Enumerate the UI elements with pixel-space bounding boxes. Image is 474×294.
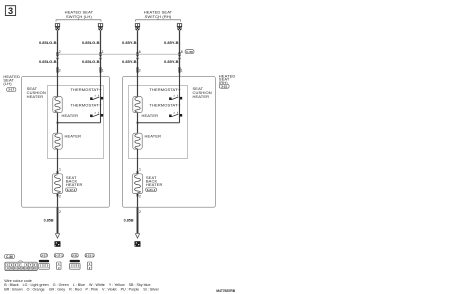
svg-text:0.85Y-B: 0.85Y-B (164, 40, 179, 45)
svg-text:THERMOSTAT: THERMOSTAT (70, 102, 99, 107)
svg-text:BR : Brown O : Orange GR: BR : Brown O : Orange GR : Grey R : Red … (4, 287, 159, 291)
heated seat (RH) unit box (122, 76, 215, 207)
svg-text:3-21-1: 3-21-1 (86, 254, 95, 258)
wire colour code legend (4, 279, 159, 291)
C-56 female terminal arrow on wire 2 (99, 57, 102, 59)
svg-text:2: 2 (59, 69, 61, 73)
C-56 female terminal arrow on wire 3 (136, 57, 139, 59)
seat cushion heater inner box (LH) (48, 86, 104, 159)
thermostat 2 leader line (RH) (176, 104, 179, 106)
svg-text:0.85B: 0.85B (44, 218, 54, 222)
wire (LH) pin-2 down to cushion heater element (57, 76, 59, 97)
wire from heated seat switch (RH) terminal A to heated seat unit (137, 30, 139, 76)
wire (RH) from heater 2 to seat back heater (137, 149, 139, 174)
connector C-56 male pin tick on wire 2 (99, 52, 101, 56)
heated seat unit entry pin 1 on wire 2 (100, 67, 102, 72)
seat back heater connector ref 3-21-1 (RH) (146, 188, 157, 192)
seat back heater caption (RH) (146, 175, 163, 187)
connector C-56 male pin tick on wire 4 (178, 52, 180, 56)
heated seat switch (LH) terminal A (55, 23, 60, 30)
heated seat (LH) ref 3-17 (7, 88, 16, 92)
heated seat (LH) unit box (21, 76, 109, 207)
svg-text:(LH): (LH) (3, 81, 12, 86)
seat cushion heater element 1 (RH) (133, 97, 142, 113)
svg-text:HEATER: HEATER (146, 182, 163, 187)
connector C-56 male pin tick on wire 1 (56, 52, 58, 56)
connector C-56 face label (4, 255, 15, 259)
heated seat switch (LH) label (65, 9, 94, 19)
junction dot (RH) (136, 122, 138, 124)
svg-text:3-21: 3-21 (221, 85, 227, 89)
svg-text:HEATER: HEATER (142, 113, 159, 118)
seat back heater connector ref 3-17-1 (LH) (66, 188, 77, 192)
wire (LH) from heater 2 to seat back heater (57, 149, 59, 174)
heated seat switch (RH) terminal A (135, 23, 140, 30)
svg-text:SWITCH (LH): SWITCH (LH) (66, 14, 93, 19)
thermostat 2 switch symbol (LH) (90, 112, 103, 117)
seat back heater pin 1 (LH) (57, 171, 59, 174)
svg-text:3-17: 3-17 (41, 254, 47, 258)
C-56 female terminal arrow on wire 4 (178, 57, 181, 59)
bracket under heated seat switch (LH) label (56, 18, 101, 22)
seat back heater pin 2 (RH) (137, 194, 139, 197)
seat cushion heater element 2 (LH) (53, 133, 62, 149)
heated seat unit entry pin 2 on wire 1 (57, 67, 59, 72)
ground wire (RH) (137, 207, 139, 233)
svg-text:1: 1 (181, 69, 183, 73)
svg-text:THERMOSTAT: THERMOSTAT (149, 102, 178, 107)
heated seat unit entry pin 1 on wire 4 (179, 67, 181, 72)
connector C-56 label (185, 50, 194, 54)
svg-text:2: 2 (139, 210, 141, 214)
connector 3-21-1 face (85, 254, 94, 258)
wire from heated seat switch (LH) terminal B to heated seat unit (100, 30, 102, 76)
thermostat 2 switch symbol (RH) (169, 112, 182, 117)
connecting wire at bottom of cushion heater (RH) (138, 122, 180, 124)
svg-text:HEATER: HEATER (66, 182, 83, 187)
wire (RH) pin-1 thermostat branch (179, 76, 181, 123)
wire (RH) seat back heater to unit box edge (137, 197, 139, 208)
thermostat 1 switch symbol (RH) (169, 95, 182, 100)
ground wire (LH) (57, 207, 59, 233)
thermostat 1 leader line (RH) (176, 89, 179, 91)
svg-text:0.85Y-B: 0.85Y-B (164, 59, 179, 64)
svg-text:HEATER: HEATER (145, 133, 162, 138)
svg-text:HEATER: HEATER (193, 94, 210, 99)
seat cushion heater caption (LH) (27, 86, 46, 99)
seat back heater pin 1 (RH) (137, 171, 139, 174)
svg-text:THERMOSTAT: THERMOSTAT (70, 87, 99, 92)
svg-text:3-17-1: 3-17-1 (67, 188, 76, 192)
svg-text:M4T7B57RB: M4T7B57RB (216, 289, 235, 293)
wire (LH) seat back heater to unit box edge (57, 197, 59, 208)
ground symbol (RH) (135, 234, 141, 247)
C-56 female terminal arrow on wire 1 (56, 57, 59, 59)
seat back heater pin 2 (LH) (57, 194, 59, 197)
connector C-56 male pin tick on wire 3 (136, 52, 138, 56)
seat back heater caption (LH) (66, 175, 83, 187)
seat back heater element (RH) (132, 174, 142, 194)
svg-text:1: 1 (102, 50, 104, 54)
svg-text:HEATER: HEATER (27, 94, 44, 99)
heated seat (RH) ref 3-21 (219, 84, 229, 88)
wire from heated seat switch (LH) terminal A to heated seat unit (57, 30, 59, 76)
junction dot (LH) (56, 122, 58, 124)
svg-text:2: 2 (139, 69, 141, 73)
wire (RH) pin-2 down to cushion heater element (137, 76, 139, 97)
ground symbol (LH) (55, 234, 61, 247)
svg-text:2: 2 (139, 194, 141, 198)
thermostat 2 leader line (LH) (97, 104, 100, 106)
svg-text:0.85LG-B: 0.85LG-B (39, 40, 57, 45)
wire (LH) between heater elements (57, 113, 59, 134)
connecting wire at bottom of cushion heater (LH) (58, 122, 101, 124)
svg-text:3-17-1: 3-17-1 (55, 254, 64, 258)
svg-text:2: 2 (59, 210, 61, 214)
svg-text:1: 1 (59, 168, 61, 172)
connector C-56 face (5, 261, 37, 271)
svg-text:8: 8 (181, 50, 183, 54)
heated seat switch (LH) terminal B (98, 23, 103, 30)
wire from heated seat switch (RH) terminal B to heated seat unit (179, 30, 181, 76)
bracket under heated seat switch (RH) label (136, 18, 181, 22)
svg-text:C-56: C-56 (6, 255, 13, 259)
page number box 3 (5, 6, 15, 16)
svg-text:C-56: C-56 (186, 50, 193, 54)
svg-text:3-21-1: 3-21-1 (147, 188, 156, 192)
connector 3-17-1 face (54, 254, 63, 258)
wire (RH) between heater elements (137, 113, 139, 134)
seat cushion heater caption (RH) (193, 86, 212, 99)
wire (LH) pin-1 thermostat branch (100, 76, 102, 123)
svg-text:3-17: 3-17 (8, 88, 14, 92)
svg-text:2: 2 (59, 194, 61, 198)
seat cushion heater element 2 (RH) (133, 133, 142, 149)
svg-text:3: 3 (8, 6, 13, 16)
seat cushion heater element 1 (LH) (53, 97, 62, 113)
seat cushion heater inner box (RH) (129, 86, 188, 159)
connector C-56 boundary line (58, 53, 181, 55)
connector 3-17 face (41, 254, 48, 258)
svg-text:0.85Y-B: 0.85Y-B (122, 40, 137, 45)
svg-text:1: 1 (139, 168, 141, 172)
thermostat 1 switch symbol (LH) (90, 95, 103, 100)
svg-text:6: 6 (139, 50, 141, 54)
svg-text:0.85LG-B: 0.85LG-B (39, 59, 57, 64)
heated seat switch (RH) label (144, 9, 173, 19)
heated seat (RH) caption (219, 74, 236, 85)
heated seat unit entry pin 2 on wire 3 (137, 67, 139, 72)
seat back heater element (LH) (52, 174, 62, 194)
svg-text:0.85LG-B: 0.85LG-B (82, 59, 100, 64)
svg-text:HEATER: HEATER (65, 133, 82, 138)
svg-text:2: 2 (59, 50, 61, 54)
connector 3-21 face (71, 254, 78, 258)
svg-text:3-21: 3-21 (72, 254, 78, 258)
svg-text:HEATER: HEATER (62, 113, 79, 118)
svg-text:0.85Y-B: 0.85Y-B (122, 59, 137, 64)
heated seat (LH) caption (3, 74, 20, 86)
svg-text:0.85LG-B: 0.85LG-B (82, 40, 100, 45)
svg-text:1: 1 (102, 69, 104, 73)
svg-text:0.85B: 0.85B (124, 218, 134, 222)
thermostat 1 leader line (LH) (97, 89, 100, 91)
svg-text:THERMOSTAT: THERMOSTAT (149, 87, 178, 92)
heated seat switch (RH) terminal B (177, 23, 182, 30)
